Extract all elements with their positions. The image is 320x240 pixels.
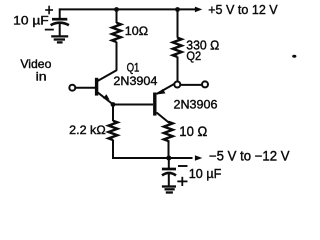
svg-text:2N3904: 2N3904 [113,74,157,88]
svg-text:2.2 kΩ: 2.2 kΩ [69,123,106,137]
svg-text:Q2: Q2 [186,49,201,63]
svg-text:−5 V to −12 V: −5 V to −12 V [209,148,290,163]
svg-text:10 Ω: 10 Ω [179,124,207,139]
svg-text:in: in [36,70,47,84]
svg-text:10Ω: 10Ω [125,24,148,38]
svg-text:+5 V to 12 V: +5 V to 12 V [208,2,278,17]
svg-text:Q1: Q1 [127,61,140,75]
svg-text:10 µF: 10 µF [189,167,222,181]
svg-text:2N3906: 2N3906 [174,98,218,112]
svg-text:10 µF: 10 µF [13,14,49,28]
